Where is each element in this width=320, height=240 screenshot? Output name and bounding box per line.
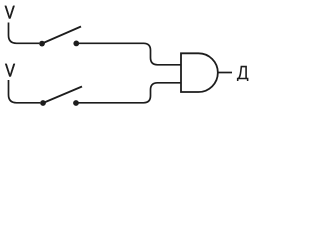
wire from top V down and right (9, 23, 40, 44)
net D output label (237, 66, 249, 81)
switch S2 throw contact dot (73, 100, 79, 106)
switch S1 lever (open) (42, 27, 81, 44)
switch S2 pole contact dot (40, 100, 46, 106)
wire AND gate output (218, 72, 232, 74)
switch S1 throw contact dot (73, 41, 79, 47)
net V label (bottom source) (5, 64, 15, 77)
switch S1 pole contact dot (39, 41, 45, 47)
wire from S1 to AND gate top input (79, 43, 182, 65)
wire from bottom V down and right (9, 80, 41, 103)
switch S2 lever (open) (43, 87, 82, 104)
AND gate U1 body (181, 53, 218, 92)
wire from S2 to AND gate bottom input (78, 83, 181, 103)
net V label (top source) (5, 6, 15, 19)
